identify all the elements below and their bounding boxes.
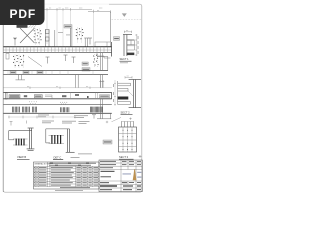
rivet dots below girder [60, 102, 67, 104]
dim line lower [8, 116, 75, 118]
svg-text:GENERAL NOTES: GENERAL NOTES [34, 163, 51, 166]
title texts row3 [100, 167, 113, 168]
girder text 2 [62, 95, 66, 97]
girder text 1 [24, 95, 27, 97]
materials row numbers [34, 167, 37, 186]
end plate outline [95, 42, 111, 47]
hatch patch [29, 25, 37, 28]
tiny marks above beam [58, 32, 71, 35]
extension lines [47, 9, 94, 46]
SECT 1 vdim [135, 34, 137, 56]
PDF badge [0, 0, 45, 25]
tick marks row d [10, 121, 27, 126]
stiffener pair b [84, 38, 88, 47]
plus mark 1 [106, 121, 108, 123]
frame left accent [2, 25, 4, 192]
svg-text:DET C: DET C [54, 155, 62, 159]
base line [3, 112, 112, 114]
rivet dots mid-left [29, 101, 37, 103]
note text small 2 [62, 121, 90, 124]
tag label B2 [82, 68, 90, 71]
SECT 1 base plate [127, 53, 135, 56]
level symbol b2 [64, 55, 68, 61]
materials rows text [39, 167, 98, 186]
dimension text top [49, 7, 103, 9]
DET C column [66, 129, 75, 152]
dashed grade line [112, 19, 142, 21]
stamp cell [122, 181, 128, 183]
company lines [101, 171, 115, 178]
datum triangle [122, 13, 127, 17]
dimension line second [88, 11, 111, 13]
SECT 3 rebar [122, 122, 134, 128]
plus mark 2 [129, 118, 131, 120]
level symbol c [92, 115, 96, 119]
DET C bolts [52, 135, 61, 144]
title texts row2 [100, 164, 141, 165]
grid mark ticks [99, 80, 104, 88]
svg-text:VIEW B: VIEW B [17, 155, 26, 159]
level symbol b3 [72, 57, 76, 63]
dark plate bar [17, 24, 28, 27]
SECT 1 scale note [120, 61, 128, 64]
SECT 2 plates [118, 81, 131, 105]
support right [97, 99, 111, 119]
SECT 1 dim [124, 31, 131, 33]
SECT 3 rebar top tie [121, 120, 134, 122]
cut flag [88, 38, 92, 45]
level symbol [13, 38, 17, 46]
footer note [55, 189, 83, 192]
girder ticks right [71, 93, 98, 100]
bolt group 2 [76, 28, 84, 39]
bolt group 3 [13, 55, 24, 66]
girder tag 3 [100, 95, 110, 98]
SECT 3 box [119, 127, 137, 152]
SECT 2 zigzag [128, 91, 134, 97]
title texts row4 [100, 182, 141, 183]
SECT 3 tag [103, 140, 112, 144]
girder tag 2 [34, 95, 42, 98]
VIEW B column [27, 128, 35, 150]
beam plan top chord [3, 42, 112, 57]
bolt group 4 [93, 55, 99, 66]
logo obelisk [133, 169, 137, 180]
stiffener pair c [54, 30, 56, 47]
posts under chord [16, 75, 103, 88]
scale note [71, 156, 80, 159]
column plan [45, 30, 49, 47]
VIEW B detail [9, 131, 32, 140]
SECT 1 tag [114, 37, 120, 41]
SECT 2 vdim [114, 80, 116, 106]
left edge mark [6, 54, 9, 60]
bottom row texts [100, 189, 141, 190]
DET C detail [46, 129, 70, 143]
girder elevation [3, 93, 112, 100]
note text small 3 [42, 121, 54, 124]
svg-text:SECT 1: SECT 1 [120, 57, 130, 61]
svg-text:PDF: PDF [9, 7, 36, 21]
SECT 2 column [129, 80, 141, 108]
materials total row [60, 186, 90, 189]
section line right end [110, 12, 112, 42]
SECT 1 column [123, 35, 132, 57]
logo side text [123, 172, 142, 178]
SECT 2 dim [125, 76, 132, 78]
sheet frame [3, 4, 142, 192]
note text small 1 [38, 115, 49, 118]
dimension line mid [3, 87, 112, 89]
hatch row [3, 104, 112, 106]
girder steps [45, 95, 52, 99]
tag on chord 1 [10, 71, 16, 74]
bottom chord ticks [8, 70, 93, 74]
stiffener pair a [71, 28, 72, 47]
tag on chord 3 [37, 71, 43, 74]
frame top fade [44, 3, 109, 5]
dimension line top [7, 8, 111, 13]
svg-text:SECT 2: SECT 2 [121, 110, 131, 114]
extension line f [62, 9, 64, 46]
chord ticks [6, 47, 108, 53]
beam end bracket [97, 53, 111, 58]
girder tag 1 [9, 95, 20, 98]
tag label B1 [82, 62, 88, 65]
bolt group 1 [34, 29, 42, 43]
svg-text:SECT 3: SECT 3 [119, 155, 129, 159]
plus mark 3 [139, 155, 142, 158]
VIEW B bolts [16, 139, 24, 146]
brace diagonal [28, 57, 42, 67]
girder small marks [75, 94, 79, 96]
note text small 4 [74, 115, 88, 118]
tag on chord 2 [23, 71, 29, 74]
SECT 2 dark plate [118, 97, 129, 100]
tag label A [64, 25, 72, 28]
beam bottom chord [3, 70, 108, 74]
bracing X [20, 28, 35, 43]
level symbol b1 [46, 57, 50, 64]
title block [99, 160, 142, 192]
drawing number row [100, 185, 141, 187]
materials table [34, 162, 100, 189]
plate outline B [97, 53, 108, 70]
leader to section [112, 117, 122, 121]
title texts row1 [100, 161, 141, 162]
SECT 1 attachments [127, 39, 135, 50]
